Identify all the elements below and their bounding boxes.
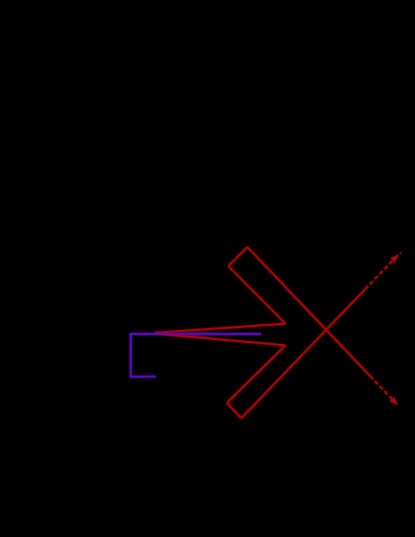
detector bracket vertical side bbox=[130, 333, 132, 377]
axis line (purple) bbox=[130, 333, 261, 335]
beam chevron upper outer edge extended to lower-right ray bbox=[247, 247, 370, 376]
detector bracket bottom side bbox=[130, 376, 156, 378]
beam chevron lower outer edge extended to upper-right ray bbox=[241, 289, 365, 418]
incident wedge lower ray bbox=[155, 334, 286, 346]
upper-right arrowhead bbox=[390, 254, 399, 263]
beam chevron top end cap bbox=[228, 247, 247, 266]
lower-right arrowhead bbox=[390, 397, 399, 406]
incident wedge upper ray bbox=[155, 324, 286, 333]
upper-right arrow tip dot bbox=[400, 252, 402, 254]
upper-right ray dashed tail bbox=[365, 258, 395, 289]
beam chevron upper inner edge bbox=[228, 266, 285, 324]
lower-right ray dashed tail bbox=[370, 376, 395, 402]
beam chevron lower inner edge bbox=[227, 345, 286, 403]
beam chevron bottom end cap bbox=[227, 403, 242, 418]
